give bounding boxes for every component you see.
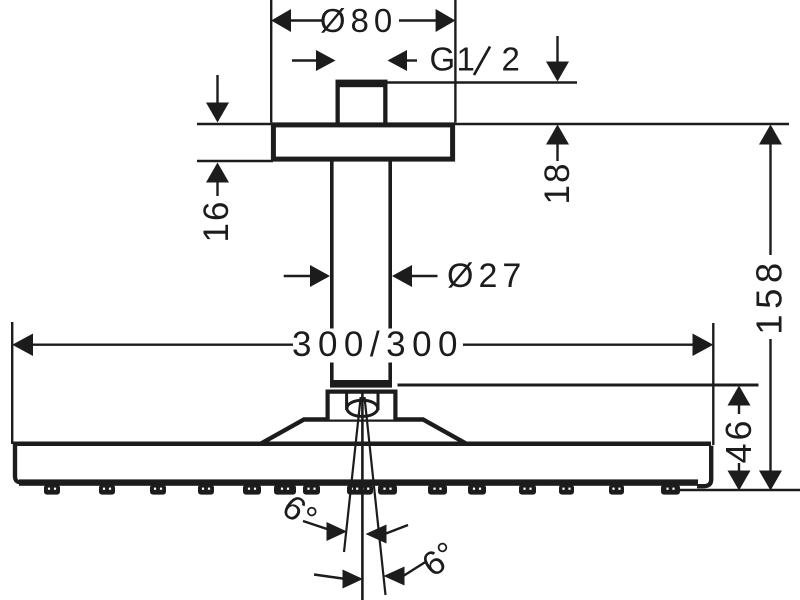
- svg-text:1: 1: [457, 41, 475, 78]
- dim dia27 stems: [284, 275, 311, 277]
- svg-text:46: 46: [718, 417, 759, 463]
- ceiling line left: [197, 123, 273, 125]
- arrow angle lower right: [384, 567, 405, 586]
- connector G1/2: [336, 80, 388, 123]
- arrow 46 down: [728, 471, 751, 491]
- spray center line: [361, 392, 364, 600]
- label 300/300: [296, 329, 460, 363]
- svg-text:158: 158: [749, 257, 790, 334]
- arrow angle upper left: [327, 522, 348, 541]
- arrow G1/2 right: [388, 50, 408, 71]
- ext line 300 right: [712, 323, 714, 445]
- ceiling plate: [273, 125, 452, 159]
- svg-text:Ø80: Ø80: [320, 2, 397, 39]
- arrow dia80 right: [436, 9, 456, 32]
- head shoulder trapezoid: [261, 420, 466, 444]
- dim 16 stems: [216, 75, 218, 104]
- ball joint: [345, 392, 348, 411]
- bottom level line: [679, 489, 800, 491]
- svg-text:6°: 6°: [275, 488, 324, 538]
- plate bottom level line left: [197, 160, 273, 162]
- svg-text:2: 2: [502, 41, 520, 78]
- spray line right 6deg: [365, 397, 386, 595]
- arm nut: [328, 392, 396, 420]
- arrow 18 down: [546, 62, 569, 82]
- arrow 16 up: [206, 163, 229, 183]
- arrow 16 down: [206, 103, 229, 123]
- svg-text:Ø27: Ø27: [447, 257, 526, 295]
- dim G1/2 stems: [292, 59, 317, 61]
- ext line dia80 right: [454, 0, 456, 123]
- dim dia80 line: [290, 19, 322, 21]
- arrow dia27 right: [392, 265, 412, 287]
- head left edge: [13, 444, 17, 478]
- arrow 158 up: [759, 125, 782, 145]
- dim 46 stems: [738, 405, 740, 415]
- angle leaders: [303, 521, 330, 530]
- svg-text:16: 16: [197, 200, 236, 243]
- arrow G1/2 left: [316, 50, 336, 71]
- svg-text:6°: 6°: [415, 535, 464, 585]
- dim 300 line: [32, 344, 293, 346]
- arrow 18 up: [546, 125, 569, 145]
- ext line dia80 left: [270, 0, 272, 123]
- arrow angle lower left: [343, 570, 364, 589]
- connector top level line: [388, 81, 578, 83]
- svg-text:300/300: 300/300: [292, 325, 464, 364]
- arrow 300 right: [693, 334, 714, 357]
- arrow dia80 left: [271, 9, 291, 32]
- ext line 300 left: [11, 322, 13, 444]
- dim 18 stems: [556, 36, 558, 63]
- svg-text:G: G: [430, 41, 456, 78]
- arrow 158 down: [759, 471, 782, 491]
- arrow 46 up: [728, 386, 751, 406]
- head body: [13, 442, 711, 447]
- level line y385: [398, 384, 759, 387]
- arrow 300 left: [12, 334, 33, 357]
- shower arm pipe: [330, 160, 392, 388]
- svg-text:18: 18: [538, 162, 577, 205]
- spray line left 6deg: [344, 397, 361, 552]
- nozzle dots: [48, 488, 675, 490]
- arrow angle upper right: [366, 525, 387, 544]
- arrow dia27 left: [310, 265, 330, 287]
- dim 158 stems: [769, 144, 771, 256]
- ceiling line right: [453, 123, 789, 125]
- nozzles: [44, 485, 680, 495]
